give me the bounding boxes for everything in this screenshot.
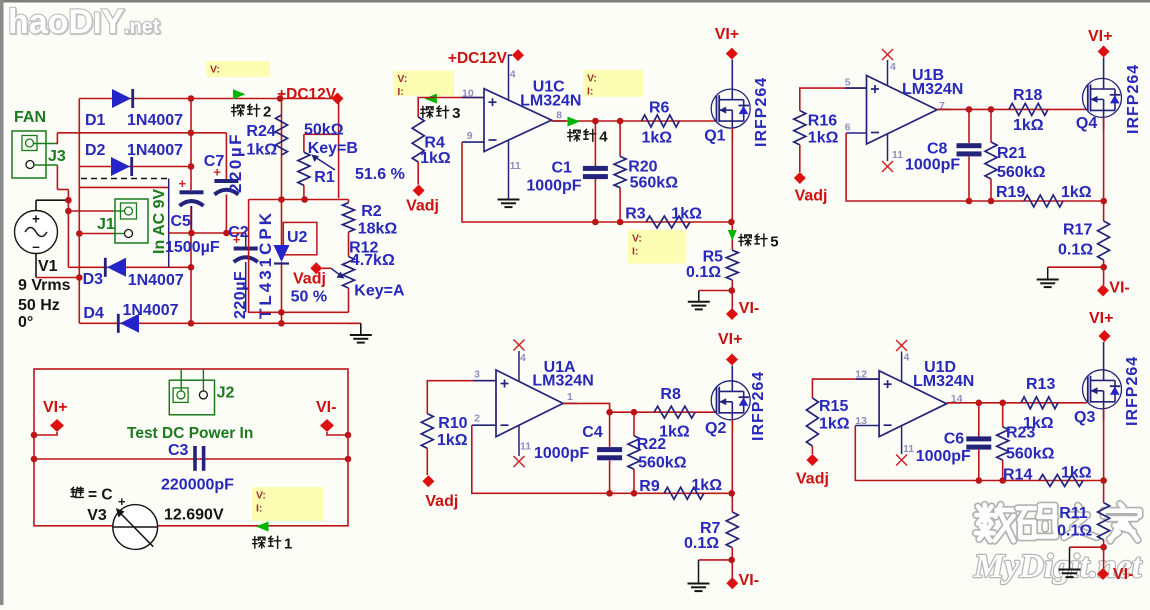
- svg-text:+: +: [179, 176, 187, 191]
- svg-text:3: 3: [474, 369, 480, 381]
- svg-text:C1: C1: [552, 160, 573, 177]
- svg-text:51.6 %: 51.6 %: [355, 166, 405, 183]
- svg-text:+DC12V: +DC12V: [448, 50, 508, 67]
- svg-text:VI-: VI-: [1113, 566, 1133, 583]
- svg-text:R3: R3: [625, 206, 646, 223]
- svg-text:I:: I:: [632, 246, 638, 258]
- svg-text:1kΩ: 1kΩ: [671, 206, 702, 223]
- svg-text:Vadj: Vadj: [293, 271, 326, 288]
- svg-text:–: –: [32, 239, 40, 254]
- svg-text:I:: I:: [256, 503, 262, 515]
- svg-text:J3: J3: [48, 148, 66, 165]
- svg-text:Vadj: Vadj: [425, 493, 458, 510]
- svg-text:FAN: FAN: [14, 109, 46, 126]
- svg-text:12.690V: 12.690V: [164, 507, 224, 524]
- svg-text:1kΩ: 1kΩ: [808, 130, 839, 147]
- svg-text:= C: = C: [88, 487, 113, 504]
- svg-text:IRFP264: IRFP264: [753, 77, 770, 147]
- svg-text:TL431CPK: TL431CPK: [256, 210, 275, 319]
- svg-text:IRFP264: IRFP264: [1124, 356, 1141, 426]
- svg-text:IRFP264: IRFP264: [750, 371, 767, 441]
- svg-text:Vadj: Vadj: [796, 471, 829, 488]
- svg-text:1kΩ: 1kΩ: [642, 130, 673, 147]
- svg-text:Q1: Q1: [704, 128, 725, 145]
- svg-text:V1: V1: [38, 258, 58, 275]
- svg-text:0.1Ω: 0.1Ω: [686, 264, 721, 281]
- svg-text:IRFP264: IRFP264: [1125, 64, 1142, 134]
- svg-text:1000pF: 1000pF: [916, 448, 971, 465]
- svg-text:I:: I:: [587, 85, 593, 97]
- svg-text:Vadj: Vadj: [406, 198, 439, 215]
- svg-text:R6: R6: [649, 100, 670, 117]
- svg-text:R8: R8: [660, 386, 681, 403]
- svg-text:+: +: [118, 494, 126, 509]
- svg-text:9 Vrms: 9 Vrms: [18, 277, 71, 294]
- svg-text:LM324N: LM324N: [520, 93, 581, 110]
- svg-text:D2: D2: [85, 142, 106, 159]
- svg-text:1kΩ: 1kΩ: [246, 142, 277, 159]
- svg-text:1kΩ: 1kΩ: [1013, 117, 1044, 134]
- svg-text:220000pF: 220000pF: [161, 477, 234, 494]
- svg-text:LM324N: LM324N: [902, 81, 963, 98]
- svg-text:5: 5: [770, 233, 778, 250]
- svg-text:6: 6: [845, 122, 851, 134]
- svg-text:Vadj: Vadj: [795, 188, 828, 205]
- svg-text:VI-: VI-: [739, 300, 759, 317]
- svg-text:R24: R24: [246, 123, 275, 140]
- svg-text:V:: V:: [632, 233, 642, 245]
- svg-text:Q3: Q3: [1074, 409, 1095, 426]
- svg-text:R23: R23: [1006, 425, 1035, 442]
- svg-text:R5: R5: [703, 249, 724, 266]
- svg-text:1kΩ: 1kΩ: [437, 432, 468, 449]
- svg-text:C7: C7: [204, 153, 225, 170]
- svg-text:1000pF: 1000pF: [905, 157, 960, 174]
- svg-text:220µF: 220µF: [226, 132, 245, 193]
- svg-text:J1: J1: [97, 216, 115, 233]
- svg-text:1N4007: 1N4007: [127, 142, 183, 159]
- svg-text:R1: R1: [314, 169, 335, 186]
- svg-text:R14: R14: [1003, 467, 1032, 484]
- svg-text:R15: R15: [819, 398, 848, 415]
- svg-text:1kΩ: 1kΩ: [691, 477, 722, 494]
- svg-text:C5: C5: [171, 213, 192, 230]
- svg-text:1kΩ: 1kΩ: [1061, 465, 1092, 482]
- svg-text:D1: D1: [85, 112, 106, 129]
- svg-text:+: +: [32, 212, 40, 227]
- svg-text:V:: V:: [587, 72, 597, 84]
- svg-text:560kΩ: 560kΩ: [638, 455, 687, 472]
- svg-text:1: 1: [284, 536, 292, 553]
- svg-text:18kΩ: 18kΩ: [358, 221, 398, 238]
- svg-text:R18: R18: [1013, 87, 1042, 104]
- svg-text:V3: V3: [87, 507, 107, 524]
- svg-text:R21: R21: [997, 145, 1026, 162]
- svg-text:560kΩ: 560kΩ: [1006, 446, 1055, 463]
- svg-text:I:: I:: [397, 86, 403, 98]
- svg-text:9: 9: [467, 130, 473, 142]
- svg-text:1000pF: 1000pF: [534, 445, 589, 462]
- svg-text:VI+: VI+: [715, 26, 739, 43]
- svg-text:VI-: VI-: [1109, 280, 1129, 297]
- svg-text:D3: D3: [83, 271, 104, 288]
- svg-text:VI+: VI+: [1089, 310, 1113, 327]
- svg-text:560kΩ: 560kΩ: [997, 164, 1046, 181]
- svg-text:50 %: 50 %: [291, 289, 327, 306]
- svg-text:V:: V:: [210, 64, 220, 76]
- svg-text:0.1Ω: 0.1Ω: [1058, 242, 1093, 259]
- svg-text:VI-: VI-: [316, 399, 336, 416]
- svg-text:C3: C3: [168, 442, 189, 459]
- svg-text:1500µF: 1500µF: [165, 239, 220, 256]
- svg-text:C8: C8: [927, 141, 948, 158]
- svg-text:1kΩ: 1kΩ: [819, 416, 850, 433]
- svg-text:VI+: VI+: [1088, 28, 1112, 45]
- svg-text:Test DC Power In: Test DC Power In: [127, 425, 253, 442]
- svg-text:Key=B: Key=B: [308, 140, 358, 157]
- svg-text:R19: R19: [996, 184, 1025, 201]
- svg-text:Q2: Q2: [705, 420, 726, 437]
- svg-text:VI+: VI+: [718, 331, 742, 348]
- svg-text:Q4: Q4: [1076, 115, 1097, 132]
- svg-text:+DC12V: +DC12V: [277, 86, 337, 103]
- svg-text:4: 4: [510, 69, 516, 81]
- svg-text:R4: R4: [424, 135, 445, 152]
- svg-text:11: 11: [892, 149, 903, 161]
- svg-text:C4: C4: [582, 424, 603, 441]
- svg-text:4: 4: [904, 352, 910, 364]
- svg-text:50kΩ: 50kΩ: [304, 122, 344, 139]
- svg-text:V:: V:: [256, 490, 266, 502]
- svg-text:1: 1: [567, 391, 573, 403]
- svg-text:1N4007: 1N4007: [128, 272, 184, 289]
- svg-text:Key=A: Key=A: [354, 283, 405, 300]
- svg-text:R11: R11: [1059, 505, 1088, 522]
- svg-text:0.1Ω: 0.1Ω: [684, 535, 719, 552]
- svg-text:11: 11: [520, 441, 531, 453]
- svg-text:R17: R17: [1063, 222, 1092, 239]
- svg-text:C6: C6: [944, 431, 965, 448]
- svg-text:R20: R20: [628, 159, 657, 176]
- svg-text:4.7kΩ: 4.7kΩ: [351, 252, 395, 269]
- svg-text:D4: D4: [83, 305, 104, 322]
- svg-text:2: 2: [263, 104, 271, 121]
- svg-text:50 Hz: 50 Hz: [18, 297, 60, 314]
- svg-text:8: 8: [556, 110, 562, 122]
- svg-text:VI+: VI+: [43, 399, 67, 416]
- svg-text:11: 11: [510, 160, 521, 172]
- svg-text:3: 3: [452, 105, 460, 122]
- svg-text:U2: U2: [287, 229, 308, 246]
- svg-text:0.1Ω: 0.1Ω: [1057, 523, 1092, 540]
- svg-text:R10: R10: [438, 415, 467, 432]
- svg-text:VI-: VI-: [739, 572, 759, 589]
- svg-text:1000pF: 1000pF: [526, 178, 581, 195]
- svg-text:2: 2: [474, 413, 480, 425]
- svg-text:LM324N: LM324N: [532, 373, 593, 390]
- svg-text:J2: J2: [217, 385, 235, 402]
- svg-text:4: 4: [599, 129, 608, 146]
- svg-text:1N4007: 1N4007: [123, 302, 179, 319]
- svg-text:1N4007: 1N4007: [127, 112, 183, 129]
- svg-text:1kΩ: 1kΩ: [420, 150, 451, 167]
- svg-text:R13: R13: [1026, 376, 1055, 393]
- svg-text:4: 4: [520, 352, 526, 364]
- svg-text:LM324N: LM324N: [913, 373, 974, 390]
- svg-text:0°: 0°: [18, 314, 33, 331]
- svg-text:V:: V:: [397, 73, 407, 85]
- svg-text:11: 11: [903, 443, 914, 455]
- svg-text:R9: R9: [639, 478, 660, 495]
- svg-text:R2: R2: [361, 203, 382, 220]
- svg-text:5: 5: [845, 77, 851, 89]
- svg-text:1kΩ: 1kΩ: [1061, 184, 1092, 201]
- svg-text:R16: R16: [808, 113, 837, 130]
- svg-text:560kΩ: 560kΩ: [630, 175, 679, 192]
- svg-text:R22: R22: [637, 436, 666, 453]
- svg-text:4: 4: [890, 61, 896, 73]
